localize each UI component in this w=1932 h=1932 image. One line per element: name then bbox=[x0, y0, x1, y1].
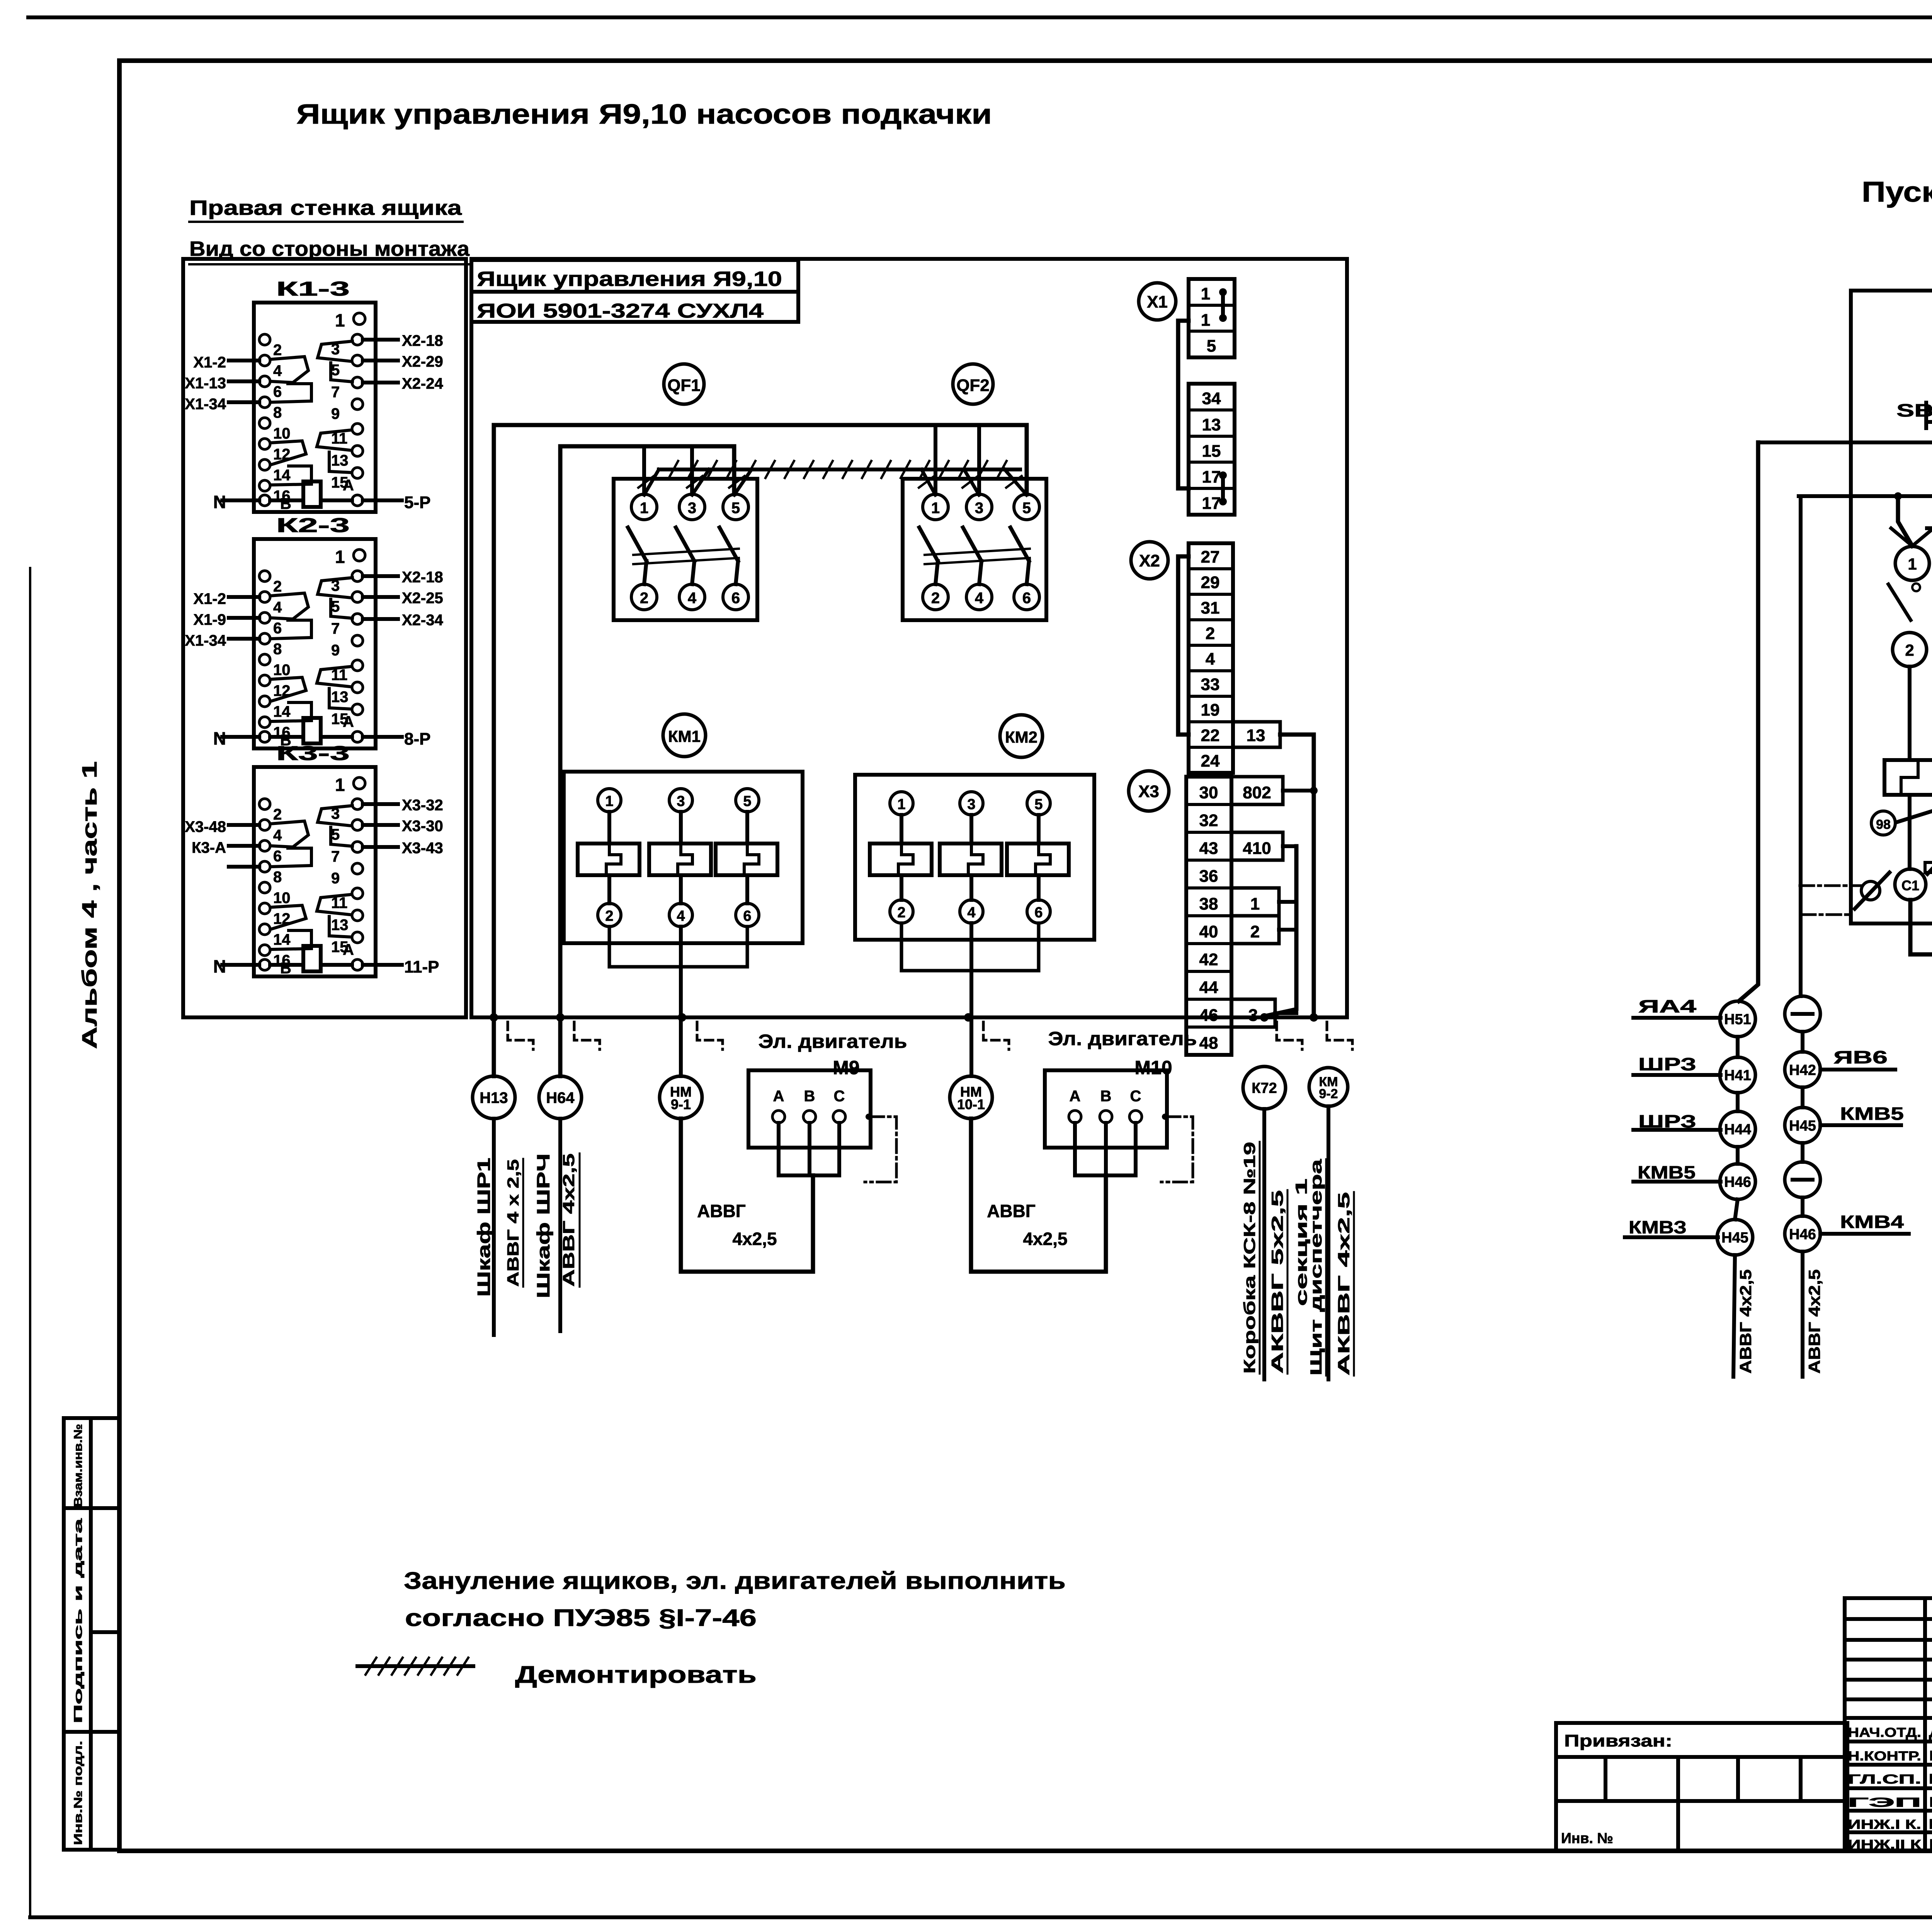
svg-text:Х1-2: Х1-2 bbox=[194, 590, 226, 607]
svg-text:40: 40 bbox=[1199, 922, 1218, 941]
svg-text:В: В bbox=[280, 495, 291, 512]
svg-text:13: 13 bbox=[331, 689, 349, 706]
svg-text:5: 5 bbox=[1207, 337, 1216, 355]
svg-text:2: 2 bbox=[273, 806, 282, 823]
svg-text:С: С bbox=[834, 1088, 845, 1105]
svg-text:19: 19 bbox=[1201, 701, 1220, 719]
svg-text:QF1: QF1 bbox=[667, 376, 701, 395]
svg-text:КМВ4: КМВ4 bbox=[1840, 1212, 1904, 1232]
svg-text:1: 1 bbox=[1908, 555, 1917, 573]
svg-text:42: 42 bbox=[1199, 950, 1218, 969]
control wire lower bbox=[1799, 494, 1932, 498]
К1-3 coil bbox=[303, 481, 321, 507]
svg-text:9: 9 bbox=[331, 642, 340, 659]
svg-text:Н45: Н45 bbox=[1789, 1118, 1816, 1134]
svg-text:КМ2: КМ2 bbox=[1005, 728, 1037, 746]
svg-text:АКВВГ 5х2,5: АКВВГ 5х2,5 bbox=[1268, 1190, 1286, 1374]
sheet outer border bottom bbox=[30, 1915, 1932, 1919]
svg-text:А: А bbox=[343, 713, 354, 730]
wire from X2-13 and X3-802 down bbox=[1280, 735, 1314, 1017]
svg-text:А: А bbox=[773, 1088, 784, 1105]
svg-text:1: 1 bbox=[335, 310, 345, 330]
svg-text:Н42: Н42 bbox=[1789, 1062, 1816, 1078]
starter contacts top terminals bbox=[1895, 546, 1929, 580]
svg-text:КМВ5: КМВ5 bbox=[1638, 1162, 1696, 1182]
starter terminal bus bbox=[1927, 526, 1932, 530]
svg-text:Х1-34: Х1-34 bbox=[185, 632, 226, 649]
ground dash-dot (М10) bbox=[1162, 1114, 1168, 1120]
svg-text:11-Р: 11-Р bbox=[404, 957, 439, 976]
svg-text:Х3-43: Х3-43 bbox=[402, 840, 443, 857]
title block main outline bbox=[1845, 1718, 1932, 1851]
drawing frame bbox=[119, 58, 1932, 63]
svg-text:30: 30 bbox=[1199, 783, 1218, 802]
svg-text:4: 4 bbox=[967, 905, 975, 921]
svg-text:Альбом 4 , часть 1: Альбом 4 , часть 1 bbox=[78, 761, 101, 1049]
К2-3 coil bbox=[303, 718, 321, 743]
svg-text:27: 27 bbox=[1201, 548, 1220, 566]
svg-text:4: 4 bbox=[273, 827, 282, 844]
svg-text:2: 2 bbox=[273, 342, 282, 359]
svg-text:4: 4 bbox=[273, 599, 282, 616]
svg-text:9-1: 9-1 bbox=[671, 1097, 691, 1112]
svg-text:Правая стенка ящика: Правая стенка ящика bbox=[189, 196, 462, 219]
svg-text:24: 24 bbox=[1201, 752, 1220, 770]
motor М9 terminal box bbox=[748, 1070, 871, 1148]
svg-text:ГУСЕВА: ГУСЕВА bbox=[1929, 1748, 1932, 1764]
svg-text:Инв. №: Инв. № bbox=[1561, 1830, 1613, 1847]
breaker QF2 designator bbox=[953, 364, 993, 404]
control box outline bbox=[471, 259, 1347, 1017]
svg-text:Х3-30: Х3-30 bbox=[402, 818, 443, 835]
svg-text:2: 2 bbox=[1905, 641, 1914, 659]
svg-text:АВВГ 4х2,5: АВВГ 4х2,5 bbox=[560, 1153, 578, 1287]
contactor KM1 bbox=[564, 772, 803, 943]
sheet outer border left (partial) bbox=[29, 568, 31, 1917]
svg-text:14: 14 bbox=[273, 703, 291, 720]
svg-text:1: 1 bbox=[640, 500, 648, 517]
signature rows bbox=[1845, 1740, 1932, 1743]
svg-text:В: В bbox=[1100, 1088, 1112, 1105]
svg-text:3: 3 bbox=[677, 793, 685, 810]
svg-text:Х2-25: Х2-25 bbox=[402, 590, 443, 607]
svg-text:В: В bbox=[804, 1088, 815, 1105]
svg-text:48: 48 bbox=[1199, 1034, 1218, 1053]
svg-text:Х2-29: Х2-29 bbox=[402, 353, 443, 370]
starter enclosure box bbox=[1851, 291, 1932, 923]
svg-text:Х3: Х3 bbox=[1138, 782, 1159, 801]
svg-text:АВВГ 4х2,5: АВВГ 4х2,5 bbox=[1736, 1269, 1755, 1374]
svg-text:Х1-2: Х1-2 bbox=[194, 354, 226, 371]
svg-text:А: А bbox=[343, 941, 354, 958]
QF2 tap wires bbox=[934, 425, 937, 494]
cable tails column 1-2 bbox=[1733, 1255, 1735, 1377]
svg-text:2: 2 bbox=[897, 905, 905, 921]
cable marker НМ10-1 bbox=[950, 1076, 992, 1119]
svg-text:2: 2 bbox=[640, 590, 648, 607]
svg-text:34: 34 bbox=[1202, 389, 1221, 408]
X2 offset cell 13 bbox=[1233, 722, 1280, 747]
X3 offset cell 1 bbox=[1231, 888, 1279, 916]
К2-3 jumper links bbox=[270, 593, 308, 619]
svg-text:ГУСЕВА: ГУСЕВА bbox=[1929, 1794, 1932, 1810]
svg-text:32: 32 bbox=[1199, 811, 1218, 830]
contactor KM2 designator bbox=[1000, 715, 1043, 757]
svg-text:ШРЗ: ШРЗ bbox=[1638, 1054, 1696, 1074]
svg-text:6: 6 bbox=[731, 590, 740, 607]
feeder wire to QF1 bbox=[560, 446, 734, 1076]
control box label plate bbox=[471, 260, 798, 322]
terminal strip X1 upper bbox=[1189, 279, 1235, 357]
cable marker КМ9-2 bbox=[1309, 1068, 1348, 1106]
svg-text:Привязан:: Привязан: bbox=[1564, 1731, 1672, 1750]
svg-text:6: 6 bbox=[743, 908, 751, 924]
svg-text:5: 5 bbox=[1022, 500, 1031, 517]
svg-text:9: 9 bbox=[331, 870, 340, 887]
cable circles column H bbox=[1720, 1001, 1755, 1037]
svg-text:Х1-9: Х1-9 bbox=[194, 611, 226, 628]
svg-text:31: 31 bbox=[1201, 599, 1220, 617]
svg-text:1: 1 bbox=[931, 500, 940, 517]
drop to terminal 1 bbox=[1894, 492, 1902, 500]
svg-text:4: 4 bbox=[1206, 650, 1215, 668]
svg-text:2: 2 bbox=[1250, 922, 1260, 941]
svg-text:9: 9 bbox=[331, 405, 340, 422]
svg-text:2: 2 bbox=[605, 908, 613, 924]
svg-text:43: 43 bbox=[1199, 839, 1218, 858]
X3 offset cell 802 bbox=[1231, 777, 1283, 804]
svg-text:22: 22 bbox=[1201, 726, 1220, 745]
svg-text:КМВЗ: КМВЗ bbox=[1629, 1217, 1687, 1237]
svg-text:ГОЛЬЦМАН: ГОЛЬЦМАН bbox=[1929, 1771, 1932, 1787]
svg-text:8-Р: 8-Р bbox=[404, 730, 430, 748]
breaker QF1 bbox=[614, 479, 757, 620]
К3-3 jumper links bbox=[270, 821, 308, 847]
svg-text:Зануление ящиков, эл. двигат: Зануление ящиков, эл. двигателей выполни… bbox=[404, 1568, 1066, 1594]
svg-text:Ящик управления Я9,10: Ящик управления Я9,10 bbox=[477, 267, 782, 291]
svg-text:М9: М9 bbox=[833, 1057, 859, 1078]
svg-text:13: 13 bbox=[1202, 415, 1221, 434]
svg-text:8: 8 bbox=[273, 641, 282, 658]
svg-text:13: 13 bbox=[1247, 726, 1265, 745]
svg-text:АВВГ: АВВГ bbox=[987, 1201, 1036, 1221]
thermal overload block bbox=[1884, 760, 1932, 795]
terminal strip X3 designator bbox=[1129, 771, 1169, 811]
svg-text:13: 13 bbox=[331, 917, 349, 934]
feeder wire to QF2 bbox=[494, 425, 1027, 1076]
X1 link 17-17 bbox=[1219, 471, 1227, 479]
svg-text:Х2-34: Х2-34 bbox=[402, 612, 443, 629]
wire from X3 cells down bbox=[1283, 844, 1296, 848]
X1 jumper bracket bbox=[1178, 321, 1189, 488]
control wire upper bbox=[1758, 440, 1932, 444]
svg-text:1: 1 bbox=[335, 547, 345, 567]
svg-text:ДАНИЛОВ: ДАНИЛОВ bbox=[1929, 1724, 1932, 1740]
svg-text:ИНЖ.II К: ИНЖ.II К bbox=[1848, 1837, 1921, 1852]
svg-text:1: 1 bbox=[897, 796, 905, 813]
svg-text:К3-А: К3-А bbox=[192, 839, 226, 856]
svg-text:1: 1 bbox=[1201, 284, 1210, 303]
svg-text:А: А bbox=[343, 477, 354, 494]
svg-text:17: 17 bbox=[1202, 494, 1221, 513]
svg-text:Н46: Н46 bbox=[1789, 1226, 1816, 1243]
terminal strip X3 bbox=[1186, 777, 1231, 1055]
stamp column bbox=[64, 1418, 120, 1850]
terminals С1 С2 С3 bbox=[1895, 869, 1926, 900]
svg-text:10: 10 bbox=[273, 425, 291, 442]
svg-text:3: 3 bbox=[688, 500, 696, 517]
svg-text:3: 3 bbox=[975, 500, 983, 517]
svg-text:4х2,5: 4х2,5 bbox=[732, 1229, 777, 1249]
svg-text:А: А bbox=[1070, 1088, 1081, 1105]
left control bus 1 bbox=[1739, 442, 1758, 1001]
svg-text:Н64: Н64 bbox=[546, 1089, 575, 1106]
svg-text:АВВГ 4 х 2,5: АВВГ 4 х 2,5 bbox=[504, 1159, 522, 1287]
svg-text:410: 410 bbox=[1243, 839, 1271, 858]
svg-text:17: 17 bbox=[1202, 468, 1221, 486]
svg-text:Х3-48: Х3-48 bbox=[185, 818, 226, 835]
svg-text:К72: К72 bbox=[1252, 1080, 1277, 1097]
svg-text:3: 3 bbox=[967, 796, 975, 813]
X3 offset cell 3 bbox=[1231, 999, 1275, 1027]
svg-text:1: 1 bbox=[605, 793, 613, 810]
svg-text:7: 7 bbox=[331, 848, 340, 865]
svg-text:Н51: Н51 bbox=[1724, 1012, 1751, 1028]
svg-text:38: 38 bbox=[1199, 895, 1218, 913]
svg-text:33: 33 bbox=[1201, 675, 1220, 694]
svg-text:QF2: QF2 bbox=[956, 376, 990, 395]
svg-text:2: 2 bbox=[273, 578, 282, 595]
svg-text:4: 4 bbox=[273, 362, 282, 379]
X3 offset cell 410 bbox=[1231, 832, 1283, 860]
cable marker К72 bbox=[1243, 1066, 1286, 1109]
svg-text:44: 44 bbox=[1199, 978, 1218, 997]
breaker QF2 bbox=[903, 479, 1046, 620]
svg-text:ЯОИ 5901-3274 СУХЛ4: ЯОИ 5901-3274 СУХЛ4 bbox=[477, 300, 764, 322]
svg-text:Н13: Н13 bbox=[480, 1089, 508, 1106]
svg-text:14: 14 bbox=[273, 931, 291, 948]
cable marker Н13 bbox=[473, 1076, 515, 1119]
terminal strip X1 designator bbox=[1139, 283, 1176, 320]
svg-text:3: 3 bbox=[1248, 1006, 1258, 1025]
legend dismantle bbox=[357, 1664, 473, 1668]
svg-text:8: 8 bbox=[273, 404, 282, 421]
svg-text:6: 6 bbox=[1034, 905, 1043, 921]
binding box bbox=[1556, 1723, 1847, 1851]
К1-3 jumper links bbox=[270, 357, 308, 383]
К2-3 left pins bbox=[259, 571, 270, 582]
starter contacts bottom terminals bbox=[1893, 633, 1927, 667]
svg-text:802: 802 bbox=[1243, 783, 1271, 802]
cable circles column 2 bbox=[1785, 996, 1820, 1032]
svg-text:Х1-34: Х1-34 bbox=[185, 396, 226, 413]
svg-text:Н41: Н41 bbox=[1724, 1068, 1751, 1084]
svg-text:С: С bbox=[1130, 1088, 1141, 1105]
svg-text:4: 4 bbox=[688, 590, 697, 607]
X3 offset cell 2 bbox=[1231, 916, 1279, 944]
svg-text:6: 6 bbox=[273, 383, 282, 400]
svg-text:Н46: Н46 bbox=[1724, 1174, 1751, 1190]
svg-text:6: 6 bbox=[273, 620, 282, 637]
cable exit break symbols bbox=[508, 1022, 533, 1049]
svg-text:5: 5 bbox=[331, 362, 340, 379]
svg-text:1: 1 bbox=[335, 775, 345, 795]
breaker QF1 designator bbox=[664, 364, 704, 404]
svg-text:НАЧ.ОТД.: НАЧ.ОТД. bbox=[1848, 1725, 1921, 1740]
svg-text:98: 98 bbox=[1876, 817, 1891, 832]
svg-text:ГЭП: ГЭП bbox=[1848, 1795, 1921, 1810]
svg-text:К2-3: К2-3 bbox=[276, 514, 350, 537]
svg-text:6: 6 bbox=[1022, 590, 1031, 607]
svg-text:5-Р: 5-Р bbox=[404, 493, 430, 512]
left control bus 2 bbox=[1799, 496, 1803, 996]
svg-text:ЕЛИЗАРОВА: ЕЛИЗАРОВА bbox=[1929, 1816, 1932, 1832]
svg-text:15: 15 bbox=[1202, 442, 1221, 461]
X2 jumper bracket bbox=[1178, 556, 1189, 735]
svg-text:АВВГ: АВВГ bbox=[697, 1201, 746, 1221]
svg-text:6: 6 bbox=[273, 848, 282, 865]
svg-text:Х2: Х2 bbox=[1139, 551, 1160, 570]
svg-text:10: 10 bbox=[273, 889, 291, 906]
svg-text:2: 2 bbox=[1206, 624, 1215, 643]
svg-text:Демонтировать: Демонтировать bbox=[515, 1662, 757, 1688]
svg-text:13: 13 bbox=[331, 452, 349, 469]
svg-text:АВВГ 4х2,5: АВВГ 4х2,5 bbox=[1805, 1269, 1823, 1374]
svg-text:4: 4 bbox=[975, 590, 984, 607]
svg-text:7: 7 bbox=[331, 620, 340, 637]
svg-text:ИНЖ.I К.: ИНЖ.I К. bbox=[1848, 1817, 1921, 1832]
svg-text:В: В bbox=[280, 960, 291, 977]
svg-text:7: 7 bbox=[331, 384, 340, 401]
cable marker Н64 bbox=[539, 1076, 582, 1119]
svg-text:5: 5 bbox=[743, 793, 751, 810]
starter contact blades bbox=[1912, 583, 1920, 591]
contactor KM2 bbox=[855, 775, 1094, 940]
U link С1-С3 bbox=[1910, 900, 1932, 954]
cable marker НМ9-1 bbox=[660, 1076, 702, 1119]
terminal strip X1 lower bbox=[1189, 384, 1235, 515]
svg-text:Н44: Н44 bbox=[1724, 1122, 1751, 1138]
junction dots on box bottom bbox=[490, 1013, 498, 1022]
dismantled bus (hatched) bbox=[659, 468, 1020, 471]
svg-text:Х1-13: Х1-13 bbox=[185, 375, 226, 392]
svg-text:Х1: Х1 bbox=[1147, 293, 1168, 311]
К3-3 left pins bbox=[259, 799, 270, 810]
svg-text:29: 29 bbox=[1201, 573, 1220, 592]
left wall panel box bbox=[183, 259, 466, 1017]
svg-text:К1-3: К1-3 bbox=[276, 278, 350, 300]
svg-text:Шкаф ШР1: Шкаф ШР1 bbox=[474, 1158, 494, 1297]
svg-text:9-2: 9-2 bbox=[1319, 1087, 1338, 1101]
svg-text:ЯА4: ЯА4 bbox=[1638, 996, 1697, 1016]
X1 link 1-1 bbox=[1219, 288, 1227, 296]
svg-text:4: 4 bbox=[677, 908, 685, 924]
svg-text:5: 5 bbox=[1034, 796, 1043, 813]
svg-text:Ящик управления Я9,10 насос: Ящик управления Я9,10 насосов подкачки bbox=[296, 99, 992, 130]
К1-3 left pins bbox=[259, 334, 270, 345]
svg-text:Пускатель КМВ1(КМВ2÷КМВ5): Пускатель КМВ1(КМВ2÷КМВ5) bbox=[1862, 176, 1932, 208]
svg-text:Н.КОНТР.: Н.КОНТР. bbox=[1848, 1749, 1921, 1764]
svg-text:Шкаф ШРЧ: Шкаф ШРЧ bbox=[533, 1153, 553, 1298]
terminal strip X2 designator bbox=[1131, 542, 1168, 579]
svg-text:5: 5 bbox=[731, 500, 740, 517]
svg-text:КМ1: КМ1 bbox=[668, 727, 701, 745]
svg-text:К3-3: К3-3 bbox=[276, 742, 350, 765]
svg-text:Х2-18: Х2-18 bbox=[402, 332, 443, 349]
svg-text:4х2,5: 4х2,5 bbox=[1023, 1229, 1067, 1249]
svg-text:Щит диспетчера: Щит диспетчера bbox=[1307, 1159, 1325, 1376]
svg-text:2: 2 bbox=[931, 590, 940, 607]
svg-text:10: 10 bbox=[273, 662, 291, 679]
svg-text:Взам.инв.№: Взам.инв.№ bbox=[72, 1424, 85, 1507]
svg-text:Х3-32: Х3-32 bbox=[402, 797, 443, 814]
svg-text:ЯВ6: ЯВ6 bbox=[1833, 1047, 1888, 1067]
svg-text:С1: С1 bbox=[1901, 878, 1919, 893]
dismantled stubs into QF1 bbox=[644, 469, 659, 495]
svg-text:5: 5 bbox=[331, 826, 340, 843]
sheet outer border top bbox=[28, 15, 1932, 19]
svg-text:Эл. двигатель: Эл. двигатель bbox=[759, 1031, 907, 1052]
contact 98-97 bbox=[1871, 811, 1895, 835]
svg-text:Х2-24: Х2-24 bbox=[402, 375, 443, 392]
svg-text:1: 1 bbox=[1201, 311, 1210, 330]
terminal strip X2 bbox=[1189, 543, 1233, 773]
svg-text:46: 46 bbox=[1199, 1006, 1218, 1025]
svg-text:КМВ5: КМВ5 bbox=[1840, 1104, 1904, 1124]
svg-text:АКВВГ 4х2,5: АКВВГ 4х2,5 bbox=[1335, 1192, 1353, 1376]
svg-text:14: 14 bbox=[273, 467, 291, 484]
svg-text:Х2-18: Х2-18 bbox=[402, 569, 443, 586]
svg-text:ГЛ.СП.: ГЛ.СП. bbox=[1848, 1772, 1921, 1787]
svg-text:10-1: 10-1 bbox=[957, 1097, 985, 1112]
svg-text:Подпись и дата: Подпись и дата bbox=[72, 1518, 85, 1723]
svg-text:Н45: Н45 bbox=[1721, 1230, 1748, 1246]
svg-text:36: 36 bbox=[1199, 867, 1218, 886]
svg-text:КОТОВА: КОТОВА bbox=[1929, 1836, 1932, 1852]
svg-text:1: 1 bbox=[1250, 895, 1260, 913]
title block mini rows bbox=[1845, 1598, 1932, 1718]
svg-text:5: 5 bbox=[331, 598, 340, 615]
К3-3 coil bbox=[303, 946, 321, 971]
svg-text:согласно ПУЭ85 §I-7-46: согласно ПУЭ85 §I-7-46 bbox=[405, 1605, 757, 1631]
svg-text:8: 8 bbox=[273, 869, 282, 886]
PE disconnect symbol bbox=[1861, 881, 1880, 900]
svg-text:Инв.№ подл.: Инв.№ подл. bbox=[72, 1741, 85, 1845]
ground dash-dot (М9) bbox=[866, 1114, 872, 1120]
motor М10 terminal box bbox=[1045, 1070, 1167, 1148]
QF1 tap wires bbox=[642, 446, 646, 494]
PE dash-dot links bbox=[1800, 884, 1861, 887]
svg-text:Эл. двигатель: Эл. двигатель bbox=[1048, 1028, 1197, 1049]
contactor KM1 designator bbox=[663, 714, 706, 757]
dismantled stubs into QF2 bbox=[922, 469, 935, 495]
svg-text:Коробка КСК-8 №19: Коробка КСК-8 №19 bbox=[1240, 1142, 1259, 1374]
